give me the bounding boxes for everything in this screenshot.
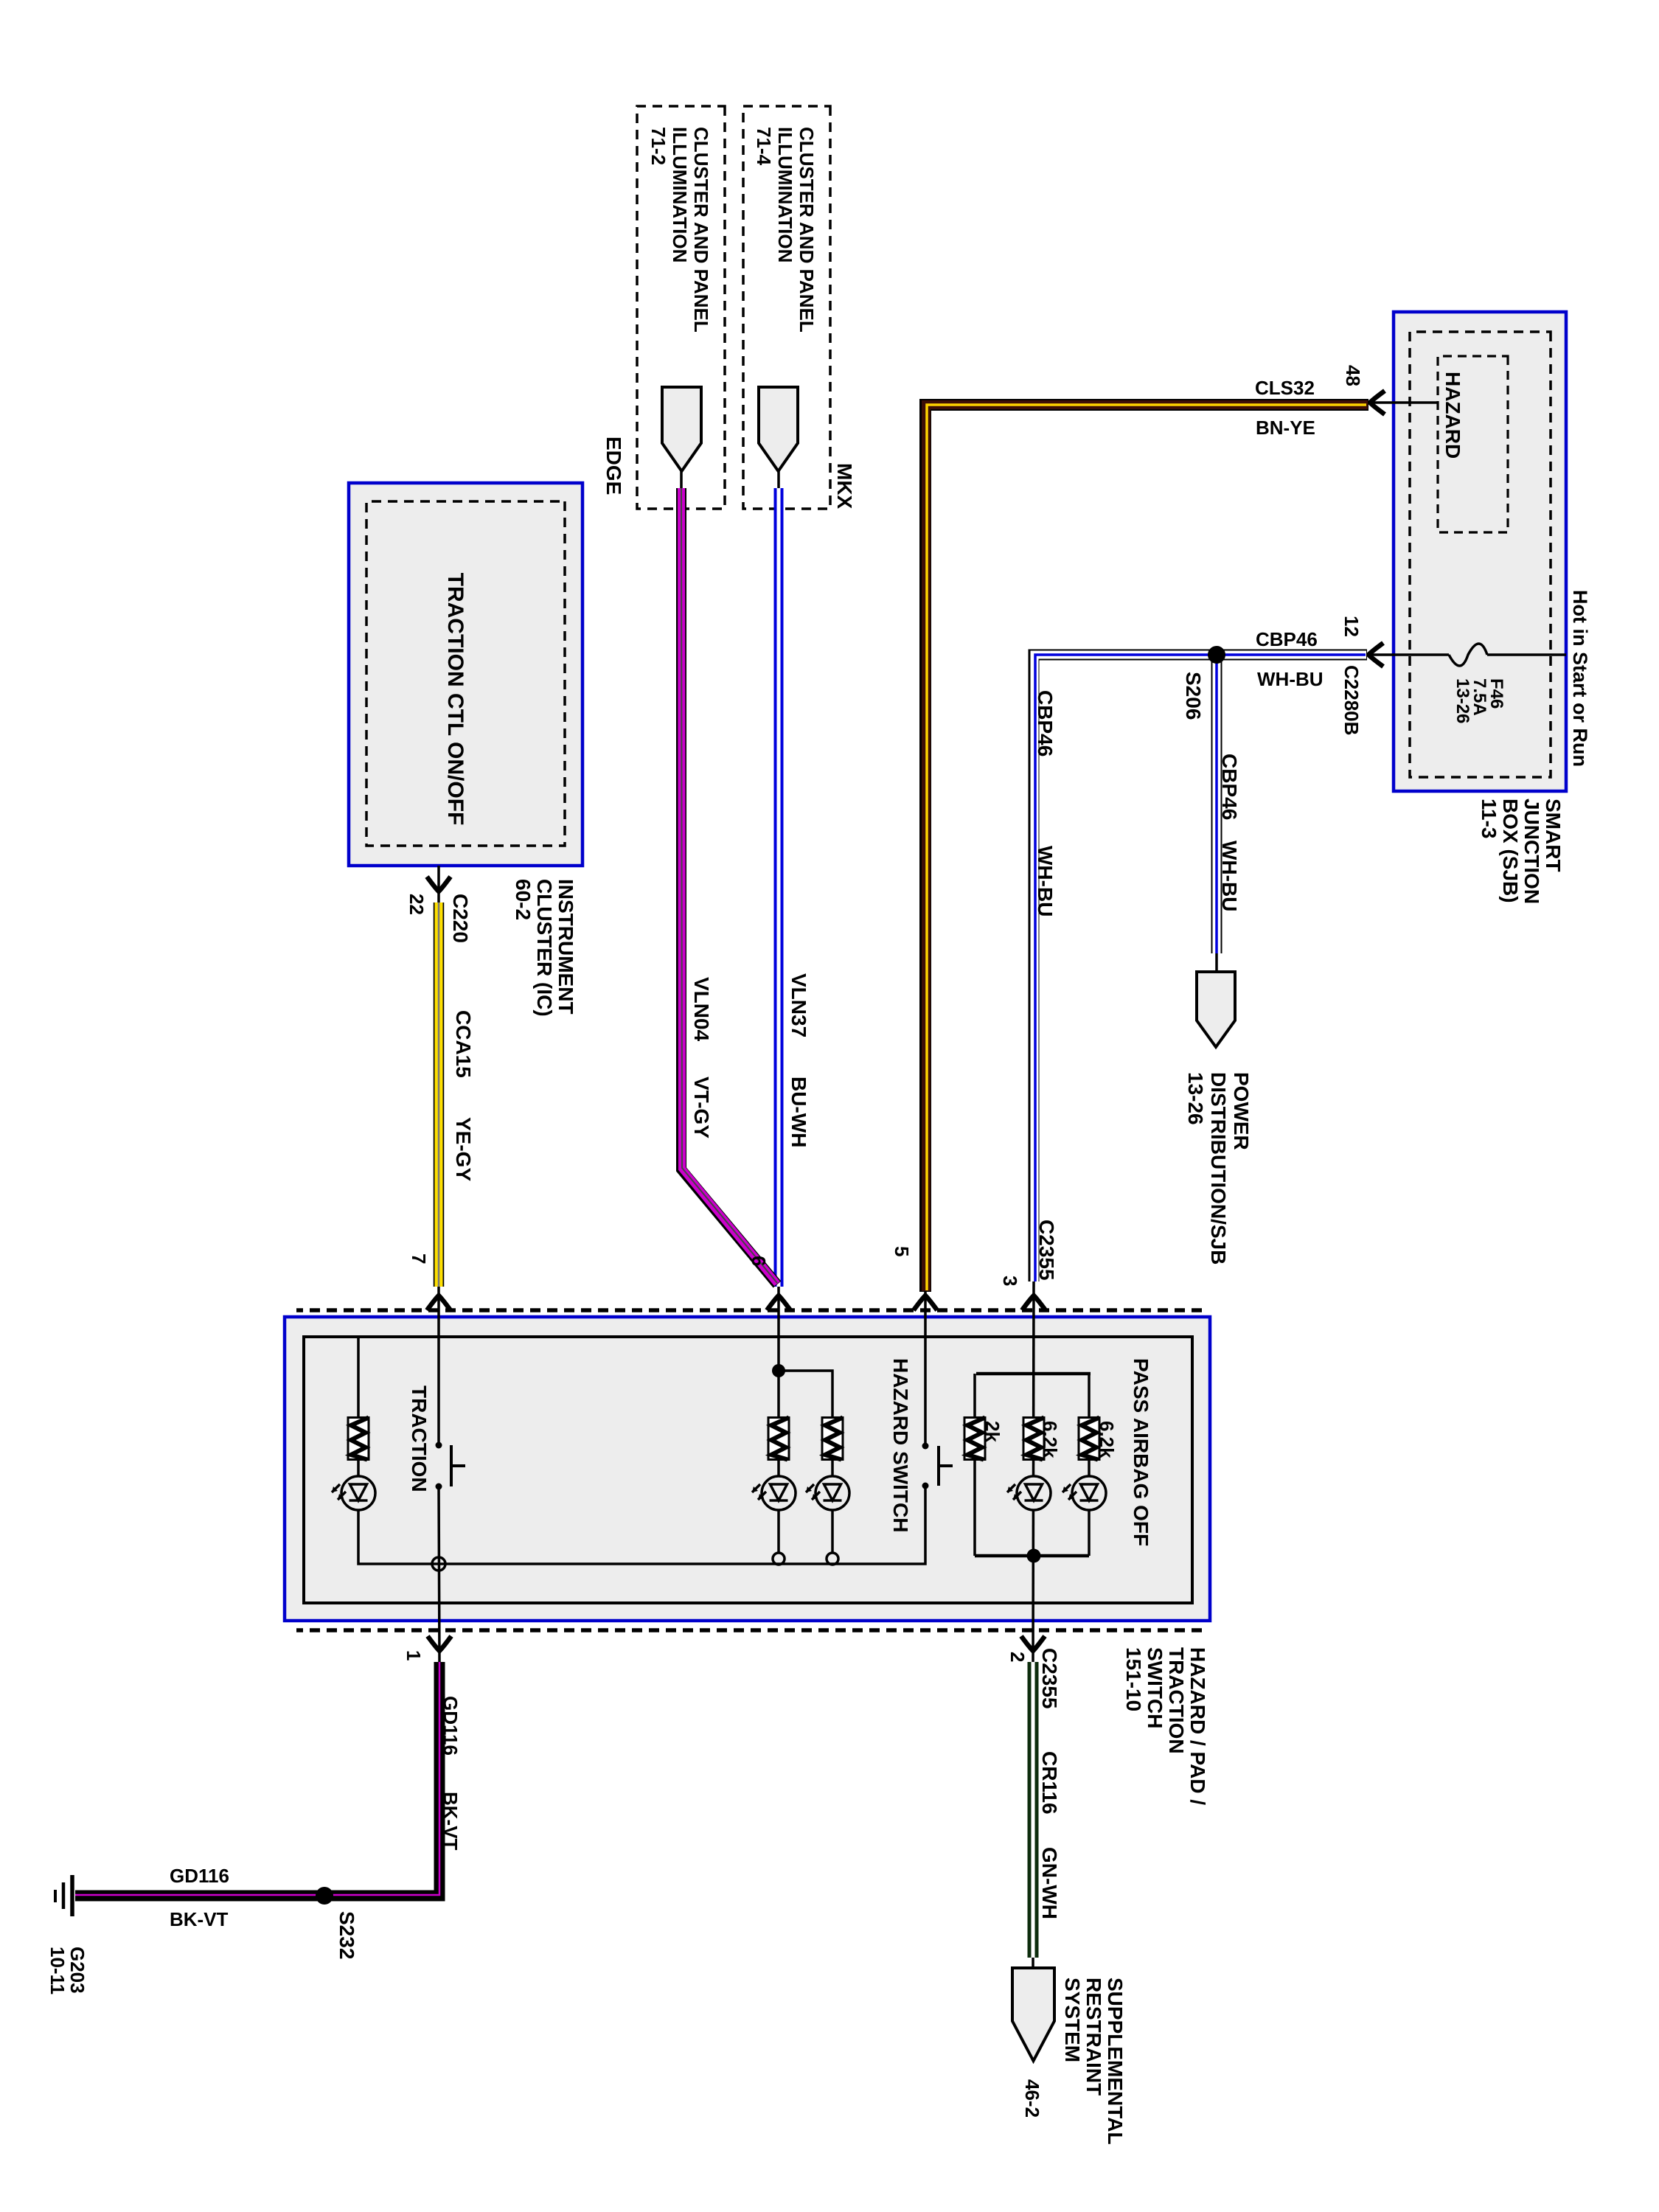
svg-text:BK-VT: BK-VT [439,1792,462,1851]
switch inner box [304,1337,1192,1603]
SJB outer dashed box [1410,332,1551,777]
svg-text:2: 2 [1006,1652,1029,1662]
connector SRS pentagon [1012,1968,1054,2061]
pin 48 connector arrow [1370,391,1385,414]
svg-text:1: 1 [403,1650,425,1660]
wire CBP46 branch to power distribution [1211,655,1222,953]
connector dashed line right [296,1628,1202,1632]
svg-text:7.5A: 7.5A [1470,678,1489,716]
cluster and panel illumination EDGE dashed box [637,106,725,509]
svg-text:GN-WH: GN-WH [1038,1847,1061,1919]
wire fuse to pin 12 [1364,653,1449,656]
connector MKX pentagon [759,387,798,471]
svg-text:12: 12 [1340,616,1363,637]
svg-text:CBP46: CBP46 [1256,628,1318,650]
pin 5 connector arrow [914,1295,937,1310]
wire stub to SRS connector [1032,1958,1034,1968]
pin 7 connector arrow [427,1295,451,1310]
wire GD116 BK-VT ground wire [75,1662,439,1896]
fuse F46 7.5A [1449,644,1487,666]
pass airbag bottom branch wire [973,1374,976,1556]
wire CBP46 WH-BU from pin 12 [1034,655,1367,1281]
wire feed from Hot bus to fuse [1487,653,1566,656]
LED hazard B [806,1476,849,1510]
svg-text:EDGE: EDGE [602,437,625,495]
svg-text:RESTRAINT: RESTRAINT [1082,1978,1105,2096]
svg-text:S232: S232 [335,1911,358,1959]
svg-text:G203: G203 [66,1947,88,1994]
svg-text:BN-YE: BN-YE [1256,417,1315,439]
svg-text:INSTRUMENT: INSTRUMENT [554,879,577,1015]
svg-text:CBP46: CBP46 [1034,690,1057,757]
svg-text:MKX: MKX [833,463,856,509]
resistor hazard A [768,1418,789,1460]
wire CR116 GN-WH [1028,1662,1039,1958]
terminal ring hazard chain A [773,1553,785,1565]
svg-text:6.2k: 6.2k [1039,1421,1061,1458]
smart junction box SJB [1394,312,1566,791]
svg-text:71-2: 71-2 [647,127,669,165]
junction ring traction [432,1557,445,1571]
traction ctl dashed box [366,501,565,846]
pin 1 connector arrow [428,1636,451,1651]
connector C2355 dashed line left [296,1308,1202,1312]
hazard branch junction dot [772,1364,785,1377]
instrument cluster box [349,483,582,866]
svg-text:PASS AIRBAG OFF: PASS AIRBAG OFF [1130,1358,1152,1546]
pin 12 connector arrow [1368,643,1383,667]
cluster and panel illumination MKX dashed box [743,106,830,509]
svg-text:C2355: C2355 [1038,1648,1061,1709]
svg-text:13-26: 13-26 [1184,1072,1207,1125]
svg-text:DISTRIBUTION/SJB: DISTRIBUTION/SJB [1207,1072,1230,1265]
wire VLN37 BU-WH blue [774,488,784,1287]
svg-text:6: 6 [748,1256,770,1266]
pass airbag left bus [976,1372,1091,1376]
splice S206 [1208,646,1225,664]
common return line [358,1337,925,1564]
svg-text:SWITCH: SWITCH [1144,1647,1166,1728]
svg-text:WH-BU: WH-BU [1218,841,1241,911]
svg-text:CLS32: CLS32 [1255,377,1315,399]
svg-text:7: 7 [408,1253,430,1264]
svg-text:WH-BU: WH-BU [1257,668,1324,690]
resistor 2k bottom [964,1418,985,1460]
svg-text:POWER: POWER [1230,1072,1253,1150]
hazard switch contacts [922,1443,929,1450]
wire stub to power dist connector [1215,953,1218,972]
resistor 6.2k top [1079,1418,1099,1460]
pin 2 connector arrow [1021,1636,1045,1651]
svg-text:CLUSTER AND PANEL: CLUSTER AND PANEL [690,127,712,333]
svg-text:Hot in Start or Run: Hot in Start or Run [1569,590,1591,767]
pass airbag junction dot [1027,1549,1041,1563]
ground G203 symbol [70,1875,74,1916]
wire pin7 through line to pin1 [439,1287,439,1662]
svg-text:GD116: GD116 [439,1696,462,1756]
hazard branch wire [779,1371,832,1553]
svg-text:BK-VT: BK-VT [170,1908,229,1930]
wire pin5 hazard switch line [924,1292,927,1446]
wire pin6 hazard line [777,1287,780,1553]
hazard pad traction switch box [285,1317,1210,1621]
wire IC box to C220 [437,866,440,904]
svg-text:SYSTEM: SYSTEM [1061,1978,1084,2062]
svg-text:CR116: CR116 [1038,1751,1061,1815]
svg-text:CCA15: CCA15 [452,1010,475,1078]
wire VLN04 VT-GY magenta [681,488,777,1284]
svg-text:3: 3 [999,1276,1021,1286]
svg-text:ILLUMINATION: ILLUMINATION [669,127,691,262]
svg-text:13-26: 13-26 [1453,678,1472,723]
svg-text:CLUSTER (IC): CLUSTER (IC) [533,879,556,1017]
svg-text:S206: S206 [1182,672,1205,720]
svg-text:C220: C220 [449,894,472,943]
svg-text:71-4: 71-4 [753,127,775,166]
traction switch contacts [436,1442,442,1449]
resistor 6.2k middle [1023,1418,1044,1460]
terminal ring hazard chain B [827,1553,838,1565]
hazard switch actuator [939,1446,953,1486]
pin 6 connector arrow [767,1295,790,1310]
resistor hazard B [822,1418,843,1460]
connector power distribution pentagon [1197,972,1235,1047]
svg-text:HAZARD SWITCH: HAZARD SWITCH [889,1358,912,1532]
svg-text:CLUSTER AND PANEL: CLUSTER AND PANEL [796,127,818,333]
svg-text:VT-GY: VT-GY [690,1077,713,1138]
LED hazard A [752,1476,796,1510]
svg-text:C2280B: C2280B [1340,665,1363,735]
svg-text:HAZARD: HAZARD [1441,372,1464,459]
svg-text:60-2: 60-2 [512,879,535,920]
svg-text:WH-BU: WH-BU [1034,846,1057,917]
svg-text:5: 5 [891,1246,913,1256]
svg-text:TRACTION: TRACTION [1165,1647,1188,1754]
IC exit connector arrow [427,877,451,891]
svg-text:GD116: GD116 [170,1865,229,1887]
svg-text:YE-GY: YE-GY [452,1117,475,1181]
svg-text:VLN04: VLN04 [690,977,713,1042]
resistor traction [348,1418,369,1460]
svg-text:CBP46: CBP46 [1218,754,1241,820]
wire stub EDGE [680,471,683,490]
splice S232 [316,1887,333,1905]
LED pass top [1062,1476,1106,1510]
svg-text:TRACTION CTL ON/OFF: TRACTION CTL ON/OFF [443,573,467,826]
svg-text:ILLUMINATION: ILLUMINATION [774,127,796,262]
LED pass middle [1007,1476,1051,1510]
svg-text:JUNCTION: JUNCTION [1520,799,1543,904]
wire CLS32 BN-YE brown [925,405,1368,1292]
svg-text:10-11: 10-11 [46,1947,69,1994]
svg-text:BOX (SJB): BOX (SJB) [1499,799,1522,903]
svg-text:46-2: 46-2 [1021,2079,1043,2118]
svg-text:22: 22 [406,894,428,915]
LED traction indicator [332,1476,375,1510]
wire stub MKX [777,471,780,490]
svg-text:2k: 2k [981,1421,1004,1442]
hazard relay dashed box [1438,356,1508,532]
pass airbag top branch wire [1088,1374,1091,1556]
svg-text:6.2k: 6.2k [1096,1421,1118,1458]
pass airbag right bus [975,1554,1089,1558]
svg-text:F46: F46 [1486,678,1506,709]
pin 3 connector arrow [1022,1295,1046,1310]
svg-text:VLN37: VLN37 [787,973,810,1037]
svg-text:C2355: C2355 [1035,1220,1058,1281]
connector EDGE pentagon [662,387,701,471]
svg-text:11-3: 11-3 [1478,799,1500,839]
wire hazard relay to pin 48 [1366,401,1438,404]
traction switch actuator [451,1445,465,1486]
svg-text:TRACTION: TRACTION [408,1385,431,1492]
wire pin3 through line to pin2 [1033,1281,1034,1662]
svg-text:HAZARD / PAD /: HAZARD / PAD / [1186,1647,1209,1805]
svg-text:48: 48 [1342,365,1364,386]
svg-text:SUPPLEMENTAL: SUPPLEMENTAL [1104,1978,1127,2145]
svg-text:BU-WH: BU-WH [787,1077,810,1147]
svg-text:SMART: SMART [1542,799,1565,872]
svg-text:151-10: 151-10 [1122,1647,1145,1711]
wire CCA15 YE-GY yellow [434,902,445,1287]
